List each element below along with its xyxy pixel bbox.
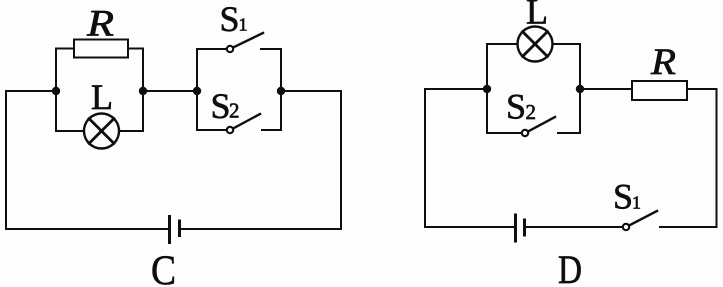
battery (C cell) [170,217,180,243]
svg-text:2: 2 [526,100,537,124]
svg-text:S: S [211,86,231,126]
resistor R (circuit C) [74,40,128,58]
wire: D lamp branch left riser [487,44,517,89]
svg-text:R: R [650,42,676,83]
wire: D main left segment [425,88,487,90]
wire: S1 fixed contact [261,49,281,91]
switch S2 (circuit D) [522,117,555,136]
node: C left junction of R/L parallel [52,87,60,95]
node: C left junction of switches [193,87,201,95]
svg-text:2: 2 [229,99,240,123]
node: D right junction [576,85,584,93]
wire: L branch left riser [56,91,84,131]
svg-text:R: R [86,3,114,44]
resistor R (circuit D) [632,81,687,100]
node: D left junction [483,85,491,93]
svg-text:S: S [506,87,526,127]
wire: D bottom battery to switch S1 [526,226,622,228]
wire: C bottom left to battery [6,228,168,230]
wire: D bottom S1 fixed contact [660,226,717,228]
wire: C middle segment between parallel groups [143,90,197,92]
svg-text:1: 1 [239,15,248,35]
wire: C left rail [5,91,7,229]
wire: D left rail [424,89,426,227]
svg-text:S: S [613,177,633,217]
svg-text:L: L [526,0,548,32]
switch S1 (circuit D) [623,211,657,230]
wire: D right rail [716,89,718,227]
wire: R branch left riser [56,49,74,92]
wire: D lamp branch right riser [553,44,581,89]
wire: L branch right riser [119,91,143,131]
switch S1 (circuit C) [227,33,263,52]
svg-text:C: C [151,249,176,287]
wire: D S2 fixed contact [558,89,580,133]
svg-text:L: L [91,77,113,117]
svg-text:D: D [558,247,582,287]
wire: D resistor to right rail [687,88,717,90]
switch S2 (circuit C) [227,114,260,133]
wire: C main right segment [281,90,341,92]
node: C right junction of switches [277,87,285,95]
wire: D right dot to resistor [580,88,632,90]
node: C right junction of R/L parallel [139,87,147,95]
wire: C main left segment [6,90,56,92]
wire: S1 branch left riser [197,49,226,91]
wire: C bottom battery to right rail [181,228,341,230]
lamp L (circuit C) [84,114,119,149]
svg-text:1: 1 [632,193,641,213]
svg-text:S: S [220,0,240,39]
battery (D cell) [516,215,525,241]
wire: C right rail [340,91,342,229]
wire: R branch right riser [128,49,143,92]
lamp L (circuit D) [518,27,553,62]
wire: S2 branch left riser [197,91,226,130]
wire: D S2 branch left riser [487,89,521,133]
wire: D bottom left to battery [425,226,514,228]
wire: S2 fixed contact [262,91,281,130]
